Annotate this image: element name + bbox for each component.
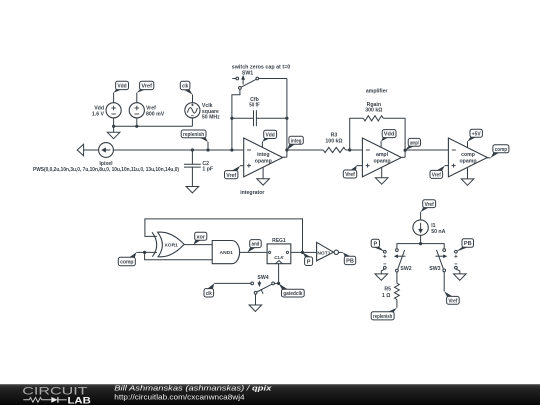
flag Vdd (ampl) xyxy=(381,130,396,147)
wire R5 to replenish xyxy=(396,300,398,308)
voltage source Vref xyxy=(129,103,165,118)
svg-text:ampl: ampl xyxy=(376,152,389,158)
svg-text:integ: integ xyxy=(291,138,302,144)
svg-text:Vref: Vref xyxy=(425,202,434,208)
ground (SW2 ctl) xyxy=(375,274,388,280)
current source I1 xyxy=(413,220,428,235)
node Cfb left junction xyxy=(230,117,233,120)
svg-text:SW3: SW3 xyxy=(429,266,440,272)
node SW1 branch junction xyxy=(230,148,233,151)
svg-text:P: P xyxy=(373,241,377,247)
svg-text:NOT1: NOT1 xyxy=(317,250,330,256)
svg-text:clk: clk xyxy=(182,84,189,90)
label C2 value xyxy=(202,161,213,173)
svg-text:gatedclk: gatedclk xyxy=(283,291,303,297)
flag Vdd (integ) xyxy=(262,130,276,147)
svg-text:1.6 V: 1.6 V xyxy=(92,112,105,118)
flag clk (SW4) xyxy=(204,283,214,297)
CircuitLab logo xyxy=(22,386,91,405)
wire main row xyxy=(113,149,243,151)
svg-text:Bill Ashmanskas (ashmanskas) /: Bill Ashmanskas (ashmanskas) / qpix xyxy=(114,384,272,393)
label amplifier xyxy=(366,88,388,94)
wire source bus xyxy=(114,118,193,126)
wire comp to XOR xyxy=(136,251,157,253)
wire XOR to AND xyxy=(184,244,212,246)
flag and (AND out) xyxy=(247,240,261,253)
wire switch bar xyxy=(397,244,444,249)
node replenish junction xyxy=(206,148,209,151)
svg-text:PB: PB xyxy=(346,259,354,265)
op-amp U2 ampl xyxy=(362,138,401,177)
svg-text:800 mV: 800 mV xyxy=(146,112,165,118)
wire SW1 to feedback right xyxy=(259,78,287,80)
switch SW2 control port xyxy=(383,250,386,269)
svg-text:R5: R5 xyxy=(384,286,391,292)
wire clk to SW4 xyxy=(214,282,251,284)
ground (comp) xyxy=(461,167,474,185)
wire AND to REG1 xyxy=(240,251,267,253)
flag Vref (I1 top) xyxy=(421,200,436,212)
wire REG1 CLK xyxy=(274,264,278,284)
switch SW4 xyxy=(251,281,275,294)
gate NOT1 xyxy=(317,242,339,260)
svg-text:comp: comp xyxy=(495,147,508,153)
svg-text:REG1: REG1 xyxy=(272,238,286,244)
node comp branch junction xyxy=(143,251,146,254)
svg-text:Vref: Vref xyxy=(141,84,152,90)
label SW4 xyxy=(257,275,268,281)
wire Vdd to bus xyxy=(113,118,115,126)
svg-text:+5V: +5V xyxy=(472,131,481,137)
flag ampl (output) xyxy=(405,138,420,150)
svg-text:300 kΩ: 300 kΩ xyxy=(365,108,382,114)
ground (SW4) xyxy=(249,305,262,311)
switch SW1 xyxy=(232,76,258,89)
flag comp (output) xyxy=(491,145,509,158)
svg-text:Vref: Vref xyxy=(432,173,441,179)
node ampl output junction xyxy=(404,149,407,152)
wire integ output xyxy=(283,156,287,158)
wire feedback right vertical xyxy=(286,79,288,158)
wire Vref to bus xyxy=(136,118,138,126)
node I1 junction xyxy=(419,242,422,245)
svg-text:opamp: opamp xyxy=(459,158,476,164)
wire Rgain feedback xyxy=(350,118,405,157)
svg-text:PWS(0,0,2u,10n,3u,0, 7u,10n,8u: PWS(0,0,2u,10n,3u,0, 7u,10n,8u,0, 10u,10… xyxy=(33,167,179,173)
svg-text:Vref: Vref xyxy=(226,173,236,179)
node integ output junction xyxy=(285,148,288,151)
input terminal (left arrow) xyxy=(77,144,99,155)
flag Vref (source) xyxy=(137,81,154,102)
svg-text:integrator: integrator xyxy=(240,190,264,196)
svg-text:integ: integ xyxy=(257,152,269,158)
flag P (SW2 ctl) xyxy=(371,239,385,251)
svg-text:1 Ω: 1 Ω xyxy=(382,293,391,299)
svg-text:1 pF: 1 pF xyxy=(202,167,213,173)
svg-text:Vref: Vref xyxy=(345,172,355,178)
capacitor Cfb xyxy=(232,110,287,126)
wire NOT1 out xyxy=(339,251,343,253)
svg-text:SW1: SW1 xyxy=(242,70,253,76)
node Cfb right junction xyxy=(285,117,288,120)
svg-text:replenish: replenish xyxy=(183,132,205,138)
wire ampl to comp xyxy=(405,149,448,151)
ground (ampl) xyxy=(375,167,388,184)
svg-text:CLK: CLK xyxy=(274,255,284,260)
flag xor (XOR out) xyxy=(194,232,207,244)
footer author text xyxy=(114,384,272,402)
flag clk (source) xyxy=(180,81,192,102)
label R5 value xyxy=(382,286,391,299)
svg-text:XOR1: XOR1 xyxy=(165,242,179,248)
svg-text:100 kΩ: 100 kΩ xyxy=(325,138,342,144)
svg-text:Vref: Vref xyxy=(448,298,457,304)
resistor R5 xyxy=(395,283,400,299)
gate XOR1 xyxy=(152,232,184,257)
svg-text:and: and xyxy=(252,242,260,248)
svg-text:50 nA: 50 nA xyxy=(431,229,445,235)
node bus Vref junction xyxy=(135,125,138,128)
svg-text:Vdd: Vdd xyxy=(384,132,395,138)
wire ampl output xyxy=(401,156,405,158)
wire Vref to I1 xyxy=(420,212,422,220)
current source Ipixel xyxy=(99,143,114,158)
flag PB (SW3 ctl) xyxy=(456,239,474,252)
flag P (REG1 out) xyxy=(303,252,313,265)
ground (C2) xyxy=(186,187,199,193)
svg-text:PB: PB xyxy=(464,241,472,247)
flag replenish (C2) xyxy=(181,130,208,150)
flag Vref (ampl +) xyxy=(343,166,362,179)
svg-text:Vdd: Vdd xyxy=(266,132,276,138)
wire comp bypass to AND xyxy=(145,252,212,259)
node P branch junction xyxy=(301,251,304,254)
flag +5V (comp) xyxy=(468,129,483,147)
wire SW2 ctl gnd xyxy=(381,269,385,274)
wire R3 to node xyxy=(346,149,363,151)
ground (SW3 ctl) xyxy=(454,274,467,280)
wire SW1 to feedback left xyxy=(232,89,240,150)
label R3 value xyxy=(325,133,342,145)
wire I1 to bar xyxy=(420,235,422,243)
resistor Rgain xyxy=(363,116,383,121)
switch SW3 xyxy=(429,249,446,272)
label Cfb value xyxy=(249,97,260,109)
label Ipixel value xyxy=(33,161,179,173)
svg-text:replenish: replenish xyxy=(373,314,393,320)
svg-text:clk: clk xyxy=(206,291,213,297)
svg-text:AND1: AND1 xyxy=(220,250,234,256)
ground (sources) xyxy=(107,126,120,138)
svg-text:comp: comp xyxy=(461,152,475,158)
wire REG1 feedback loop xyxy=(145,219,303,253)
op-amp U1 integ xyxy=(244,138,283,177)
gate AND1 xyxy=(212,241,239,264)
op-amp U3 comp xyxy=(448,138,487,177)
label integrator xyxy=(240,190,264,196)
svg-text:Vdd: Vdd xyxy=(117,84,127,90)
flag Vref (integ +) xyxy=(225,166,244,179)
flag replenish (R5) xyxy=(371,308,397,320)
ground (integ) xyxy=(257,167,270,185)
svg-text:SW2: SW2 xyxy=(400,266,411,272)
flag Vref (SW3 out) xyxy=(444,291,459,304)
switch SW3 control port xyxy=(454,250,457,269)
register REG1 xyxy=(267,238,291,264)
svg-text:http://circuitlab.com/cxcanwnc: http://circuitlab.com/cxcanwnca8wj4 xyxy=(114,392,244,401)
flag PB (NOT1 out) xyxy=(343,252,356,264)
wire SW2 to R5 xyxy=(396,272,398,283)
wire SW3 to Vref xyxy=(443,272,445,292)
svg-text:ampl: ampl xyxy=(410,140,419,146)
svg-text:opamp: opamp xyxy=(373,158,390,164)
node bus Vdd junction xyxy=(112,125,115,128)
node gatedclk junction xyxy=(277,282,280,285)
flag Vdd (source) xyxy=(114,81,129,102)
flag integ (output) xyxy=(287,136,303,150)
svg-text:xor: xor xyxy=(197,234,206,240)
label Rgain value xyxy=(365,102,382,114)
voltage source Vdd xyxy=(92,103,121,118)
svg-text:switch zeros cap at t=0: switch zeros cap at t=0 xyxy=(232,64,291,70)
wire integ to R3 xyxy=(287,149,323,151)
svg-text:amplifier: amplifier xyxy=(366,88,388,94)
node R3 junction xyxy=(348,148,351,151)
resistor R3 xyxy=(323,147,345,152)
flag Vref (comp +) xyxy=(430,166,448,179)
flag comp (XOR in) xyxy=(118,252,136,265)
svg-text:P: P xyxy=(307,259,311,265)
svg-text:50 MHz: 50 MHz xyxy=(202,115,220,121)
voltage source Vclk xyxy=(185,103,220,121)
svg-text:comp: comp xyxy=(120,260,134,266)
svg-text:50 fF: 50 fF xyxy=(249,103,260,109)
footer bar xyxy=(0,384,540,405)
svg-text:SW4: SW4 xyxy=(257,275,268,281)
wire REG1 out xyxy=(291,251,317,253)
wire SW3 ctl gnd xyxy=(456,269,460,274)
label I1 value xyxy=(431,223,445,235)
switch SW2 xyxy=(395,249,412,272)
node C2 junction xyxy=(191,148,194,151)
wire SW4 to gnd xyxy=(255,294,257,305)
svg-text:LAB: LAB xyxy=(68,394,92,405)
flag gatedclk xyxy=(279,283,305,297)
label switch zeros cap xyxy=(232,64,291,76)
capacitor C2 xyxy=(184,150,201,187)
svg-text:opamp: opamp xyxy=(255,158,272,164)
wire comp output xyxy=(487,157,491,159)
